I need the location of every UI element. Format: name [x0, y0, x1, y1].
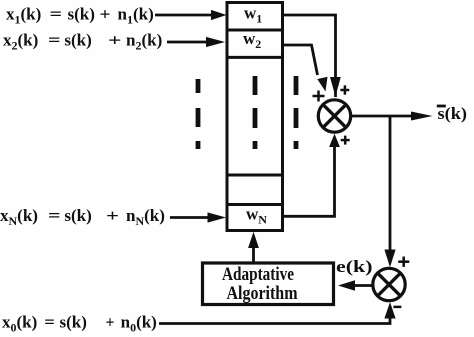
svg-text:+: +: [106, 313, 115, 332]
svg-text:s(k): s(k): [64, 31, 91, 50]
svg-text:s(k): s(k): [68, 5, 95, 24]
svg-text:x0(k): x0(k): [2, 313, 37, 335]
svg-text:s(k): s(k): [60, 313, 87, 332]
svg-text:n2(k): n2(k): [126, 31, 162, 53]
svg-text:n0(k): n0(k): [121, 313, 157, 335]
svg-text:+: +: [100, 5, 111, 24]
svg-text:x1(k): x1(k): [6, 5, 41, 27]
svg-text:=: =: [48, 31, 61, 50]
svg-text:Adaptative: Adaptative: [222, 264, 294, 285]
svg-text:=: =: [48, 206, 61, 225]
svg-text:Algorithm: Algorithm: [227, 283, 298, 304]
svg-text:+: +: [106, 206, 119, 225]
svg-text:e(k): e(k): [336, 257, 373, 276]
svg-text:xN(k): xN(k): [0, 206, 38, 228]
svg-text:s(k): s(k): [64, 206, 91, 225]
svg-text:=: =: [50, 5, 63, 24]
svg-text:x2(k): x2(k): [3, 31, 38, 53]
svg-text:nN(k): nN(k): [126, 206, 165, 228]
svg-text:+: +: [108, 31, 122, 50]
svg-text:n1(k): n1(k): [118, 5, 154, 27]
svg-text:=: =: [44, 313, 55, 332]
